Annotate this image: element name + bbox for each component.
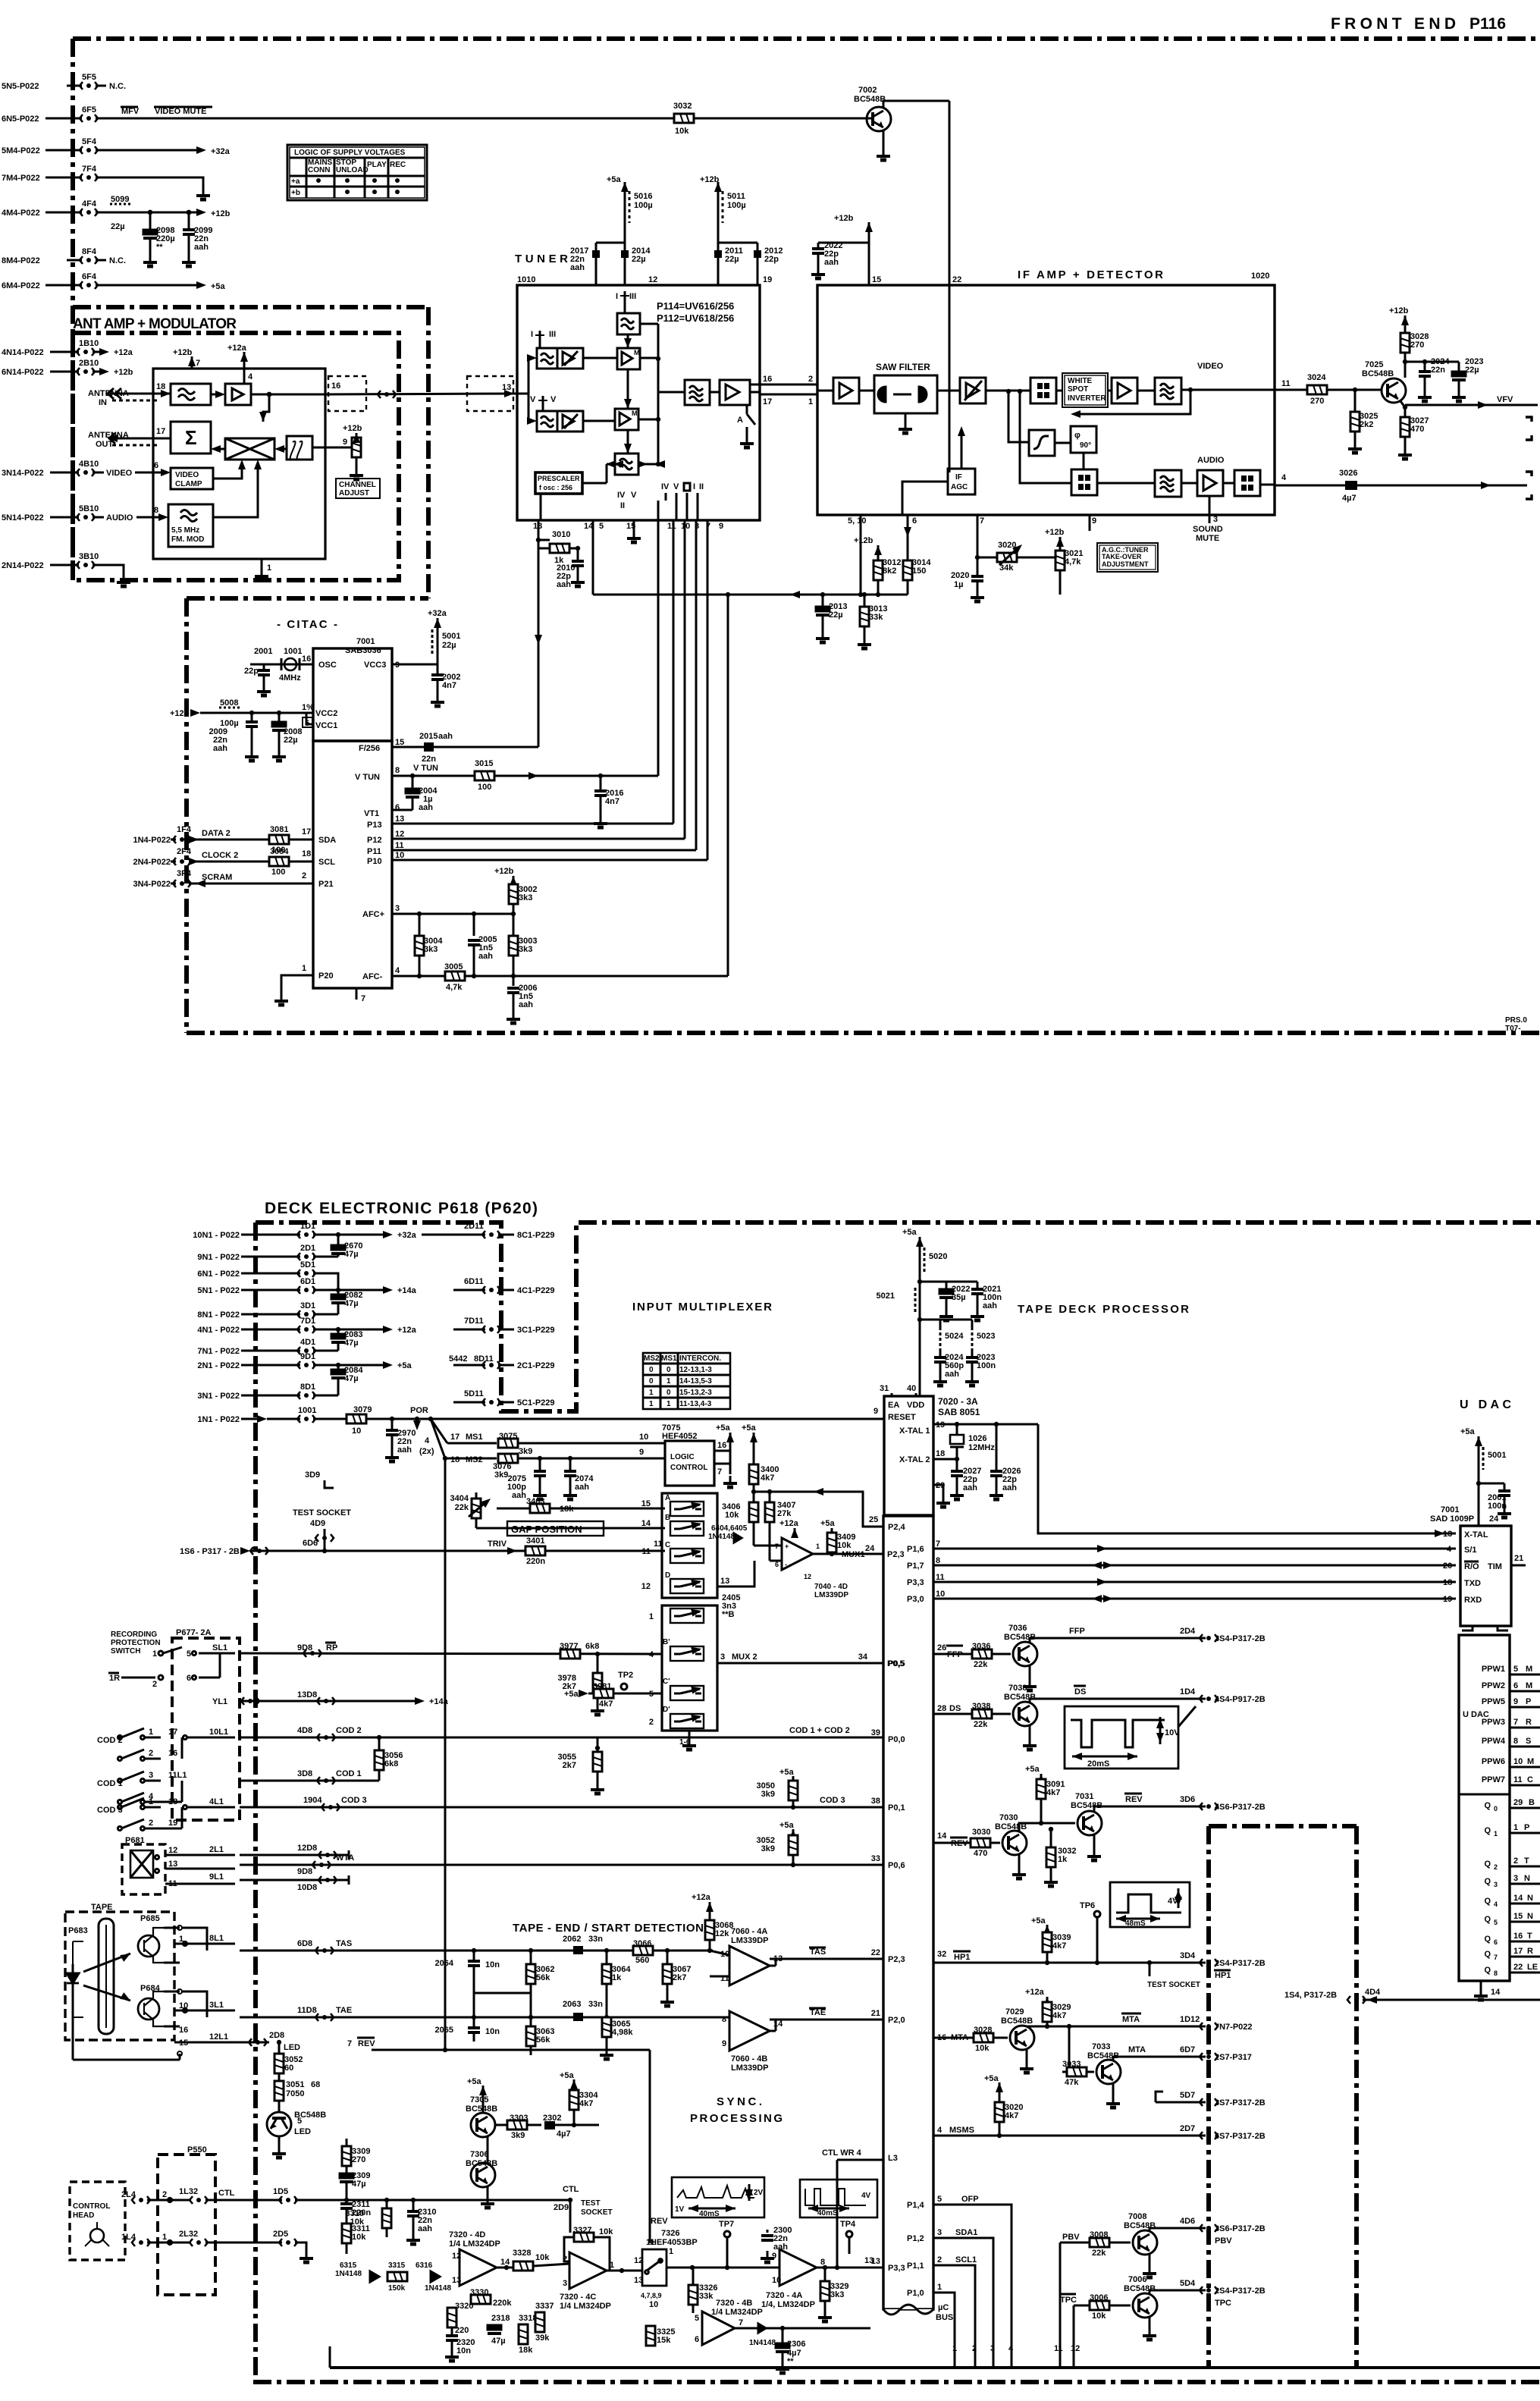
- svg-text:8D1: 8D1: [300, 1383, 315, 1392]
- svg-text:8: 8: [1513, 1737, 1518, 1746]
- svg-text:4L1: 4L1: [209, 1797, 224, 1806]
- band1 filter: [537, 348, 557, 369]
- svg-text:2S4-P317-2B: 2S4-P317-2B: [1215, 2286, 1266, 2296]
- svg-text:33k: 33k: [869, 613, 883, 622]
- svg-text:16: 16: [168, 1749, 177, 1758]
- svg-text:6k8: 6k8: [585, 1642, 599, 1651]
- svg-text:4: 4: [1494, 1900, 1498, 1908]
- svg-text:+12b: +12b: [834, 214, 854, 223]
- connector 4N14-P022 +12a: [2, 339, 133, 357]
- switch COD2: [97, 1728, 235, 1761]
- prescaler box: [535, 472, 582, 494]
- op-amp MUX1 7040-4D: [754, 1489, 905, 1599]
- svg-text:29: 29: [1513, 1798, 1523, 1807]
- svg-text:13: 13: [452, 2276, 461, 2285]
- svg-text:P685: P685: [140, 1914, 160, 1923]
- connector 5N1-P022 +14a 4C1-P229 cap 2082: [197, 1277, 554, 1295]
- video bandpass: [1155, 378, 1181, 404]
- svg-text:+12a: +12a: [1025, 1988, 1045, 1997]
- capacitor 2004 1u VTUN to VT1: [392, 776, 438, 812]
- capacitor 2022 22p at pin 15: [811, 214, 881, 285]
- svg-text:2N4-P022: 2N4-P022: [133, 858, 171, 867]
- svg-text:P3,3: P3,3: [907, 1578, 924, 1587]
- V TUN wire resistor 3015 100 caps 2004 2016: [392, 759, 658, 827]
- svg-text:T: T: [1527, 1932, 1532, 1941]
- ANTENNA OUT: [88, 427, 171, 449]
- svg-text:LOGIC OF SUPPLY VOLTAGES: LOGIC OF SUPPLY VOLTAGES: [294, 149, 406, 157]
- svg-text:1001: 1001: [284, 647, 302, 656]
- svg-text:2063: 2063: [563, 2000, 581, 2009]
- svg-text:1904: 1904: [303, 1796, 322, 1805]
- svg-text:P21: P21: [318, 880, 334, 889]
- svg-text:F/256: F/256: [359, 744, 380, 753]
- svg-text:24: 24: [1489, 1514, 1499, 1524]
- svg-text:MTA: MTA: [1122, 2015, 1140, 2024]
- svg-text:6D6: 6D6: [303, 1539, 318, 1548]
- svg-text:7008: 7008: [1128, 2212, 1146, 2221]
- svg-text:P2,3: P2,3: [888, 1955, 905, 1964]
- svg-text:+12a: +12a: [227, 344, 247, 353]
- connector 6N14-P022 +12b: [2, 359, 133, 377]
- connector 6N5-P022 pin 6F5 / MFV VIDEO MUTE wire: [2, 105, 674, 124]
- svg-text:7N1 - P022: 7N1 - P022: [197, 1347, 240, 1356]
- svg-text:+12b: +12b: [494, 867, 514, 876]
- svg-text:33k: 33k: [699, 2292, 714, 2301]
- left-side pin stubs: [871, 1659, 905, 2273]
- svg-text:10k: 10k: [675, 127, 689, 136]
- svg-text:3026: 3026: [1339, 469, 1357, 478]
- svg-text:-: -: [785, 1561, 787, 1568]
- front end frame top: [73, 36, 1540, 41]
- svg-text:4: 4: [248, 372, 253, 381]
- svg-text:220: 220: [455, 2326, 469, 2335]
- connector 2N4-P022 CLOCK2 resistor 3084: [133, 847, 313, 877]
- band2 amp: [557, 411, 583, 432]
- svg-text:+12b: +12b: [114, 368, 133, 377]
- svg-text:14: 14: [937, 1831, 947, 1841]
- svg-text:CLAMP: CLAMP: [175, 480, 202, 488]
- svg-text:3B10: 3B10: [79, 552, 99, 561]
- svg-text:12: 12: [641, 1582, 651, 1591]
- svg-text:1/4 LM324DP: 1/4 LM324DP: [560, 2302, 611, 2311]
- svg-text:5D11: 5D11: [464, 1389, 484, 1398]
- op-amp 7320-4B: [695, 2299, 870, 2347]
- connector 4N1-P022 +12a 3C1-P229 cap 2083: [197, 1317, 554, 1335]
- 3326 33k / 2306: [688, 2268, 717, 2313]
- connector 9N1-P022: [197, 1244, 338, 1262]
- TAE output to P2,0: [770, 2008, 883, 2020]
- svg-text:+a: +a: [291, 177, 300, 186]
- svg-text:aah: aah: [194, 243, 209, 252]
- resistor 3406 10k: [722, 1502, 758, 1522]
- svg-text:2: 2: [1513, 1856, 1518, 1866]
- svg-text:8: 8: [936, 1556, 940, 1565]
- svg-text:P3,0: P3,0: [907, 1595, 924, 1604]
- svg-text:90°: 90°: [1080, 441, 1091, 450]
- svg-text:aah: aah: [570, 263, 585, 272]
- svg-text:9: 9: [1092, 516, 1096, 526]
- svg-text:TAS: TAS: [810, 1947, 826, 1957]
- svg-text:aah: aah: [557, 580, 571, 589]
- svg-text:7001: 7001: [356, 637, 375, 646]
- svg-text:12: 12: [634, 2256, 643, 2265]
- svg-text:11: 11: [936, 1573, 945, 1582]
- P1,4 P1,2 P1,1 P1,0 staircase: [907, 2195, 1080, 2368]
- pin15 ground: [633, 520, 635, 531]
- svg-text:2: 2: [937, 2255, 942, 2264]
- svg-text:12: 12: [648, 275, 657, 284]
- svg-text:C: C: [1527, 1775, 1533, 1784]
- svg-text:1N4-P022: 1N4-P022: [133, 836, 171, 845]
- svg-text:13: 13: [502, 383, 511, 392]
- svg-text:4k7: 4k7: [599, 1700, 613, 1709]
- diodes 6315 3315 6316: [335, 2261, 451, 2293]
- svg-text:PPW1: PPW1: [1482, 1665, 1505, 1674]
- svg-text:MS1: MS1: [466, 1433, 483, 1442]
- svg-text:17: 17: [450, 1433, 459, 1442]
- svg-text:4MHz: 4MHz: [279, 673, 301, 683]
- svg-text:10k: 10k: [975, 2044, 990, 2053]
- ground pin 1: [261, 559, 263, 569]
- svg-text:HEAD: HEAD: [73, 2211, 94, 2220]
- lowpass shape box: [1029, 430, 1055, 456]
- svg-text:R: R: [1527, 1947, 1533, 1956]
- svg-text:TEST SOCKET: TEST SOCKET: [1147, 1981, 1200, 1989]
- svg-text:LM339DP: LM339DP: [731, 2064, 769, 2073]
- svg-text:P3,3: P3,3: [888, 2264, 905, 2273]
- osc box top: [617, 313, 640, 334]
- svg-text:17: 17: [168, 1728, 177, 1737]
- svg-text:+12b: +12b: [1389, 306, 1409, 315]
- svg-text:P1,4: P1,4: [907, 2201, 925, 2210]
- svg-text:7025: 7025: [1365, 360, 1383, 369]
- svg-text:REV: REV: [1125, 1795, 1143, 1804]
- svg-text:10n: 10n: [485, 2027, 500, 2036]
- svg-text:2064: 2064: [435, 1959, 454, 1968]
- svg-text:SYNC.: SYNC.: [717, 2095, 762, 2108]
- svg-text:1k: 1k: [1058, 1855, 1068, 1864]
- svg-text:aah: aah: [213, 744, 227, 753]
- svg-text:16: 16: [717, 1441, 726, 1450]
- svg-text:MS2: MS2: [644, 1354, 660, 1363]
- svg-text:1-6: 1-6: [679, 1738, 691, 1747]
- MS1 MS2 branch: [419, 1417, 665, 1480]
- 5D7 row: [1156, 2091, 1266, 2108]
- svg-text:+5a: +5a: [564, 1690, 579, 1699]
- op-amp feeds 3409 3407 3408: [779, 1519, 855, 1554]
- svg-text:+5a: +5a: [1025, 1765, 1040, 1774]
- connector 6M4-P022 pin 6F4 +5a: [2, 272, 226, 291]
- svg-text:2F4: 2F4: [177, 847, 192, 856]
- svg-text:1: 1: [302, 964, 306, 973]
- svg-text:1: 1: [937, 2283, 942, 2292]
- svg-text:7D1: 7D1: [300, 1317, 315, 1326]
- prescaler to pin 13 wire: [540, 494, 542, 520]
- svg-text:4: 4: [1447, 1545, 1452, 1554]
- MTA stage transistors 7029 7033: [933, 1988, 1253, 2108]
- svg-text:1N1 - P022: 1N1 - P022: [197, 1415, 240, 1424]
- svg-text:P12: P12: [367, 836, 382, 845]
- svg-text:0: 0: [649, 1366, 654, 1374]
- svg-text:12-13,1-3: 12-13,1-3: [679, 1366, 712, 1374]
- TAS TAE LED rows: [174, 1934, 531, 2048]
- svg-text:VIDEO: VIDEO: [1197, 362, 1224, 371]
- svg-text:FM. MOD: FM. MOD: [171, 535, 204, 544]
- svg-text:1026: 1026: [968, 1434, 986, 1443]
- svg-text:12MHz: 12MHz: [968, 1443, 995, 1452]
- svg-text:14: 14: [1491, 1988, 1501, 1997]
- svg-text:6D8: 6D8: [297, 1939, 312, 1948]
- svg-text:7320 - 4C: 7320 - 4C: [560, 2293, 596, 2302]
- svg-text:2020: 2020: [951, 571, 969, 580]
- svg-text:33n: 33n: [588, 1935, 603, 1944]
- svg-text:M: M: [632, 410, 638, 417]
- svg-text:MTA: MTA: [1128, 2045, 1146, 2054]
- svg-text:22µ: 22µ: [632, 255, 646, 264]
- mux block 2 rows A' B' C' D': [662, 1605, 717, 1731]
- svg-text:27k: 27k: [777, 1509, 792, 1518]
- svg-text:4D4: 4D4: [1365, 1988, 1381, 1997]
- svg-text:M: M: [1526, 1665, 1532, 1674]
- svg-text:TPC: TPC: [1215, 2299, 1231, 2308]
- P550 dashed box: [158, 2145, 215, 2295]
- HP1 row P0,7: [933, 1916, 1266, 1989]
- svg-text:+12b: +12b: [1045, 528, 1065, 537]
- svg-text:10k: 10k: [599, 2227, 613, 2236]
- svg-text:22: 22: [1513, 1963, 1523, 1972]
- svg-text:MUX 2: MUX 2: [732, 1652, 757, 1662]
- svg-text:10N1 - P022: 10N1 - P022: [193, 1231, 240, 1240]
- svg-text:IV: IV: [617, 491, 626, 500]
- svg-text:22µ: 22µ: [111, 222, 125, 231]
- svg-text:SL1: SL1: [212, 1643, 227, 1652]
- svg-text:270: 270: [1310, 397, 1324, 406]
- P13 P12 P11 P10 bus wires: [392, 824, 707, 860]
- svg-text:1k: 1k: [612, 1973, 622, 1982]
- bottom bus: [330, 2366, 1540, 2369]
- svg-text:220k: 220k: [493, 2299, 512, 2308]
- 3D9 stub / TEST SOCKET: [293, 1470, 351, 1517]
- svg-text:3320: 3320: [455, 2302, 473, 2311]
- transistor 7002 BC548B: [854, 86, 949, 160]
- svg-text:100µ: 100µ: [634, 201, 653, 210]
- svg-text:3: 3: [1213, 515, 1218, 524]
- svg-text:25: 25: [869, 1515, 878, 1524]
- AGC TUNER TAKE-OVER ADJUSTMENT box: [1097, 543, 1158, 572]
- svg-text:+b: +b: [291, 189, 300, 197]
- svg-text:N: N: [1527, 1894, 1533, 1903]
- svg-text:A: A: [737, 416, 743, 425]
- svg-text:VCC3: VCC3: [364, 661, 386, 670]
- svg-text:SCL1: SCL1: [955, 2255, 977, 2264]
- svg-text:2k2: 2k2: [1360, 420, 1373, 429]
- svg-text:60: 60: [284, 2064, 293, 2073]
- modulator mixer: [225, 438, 274, 460]
- svg-text:2k7: 2k7: [563, 1761, 576, 1770]
- X-TAL wire to UDAC: [1038, 1424, 1456, 1533]
- svg-text:3032: 3032: [673, 102, 692, 111]
- B row wire: [476, 1527, 665, 1530]
- deck frame top: [256, 1222, 1540, 1411]
- svg-text:U DAC: U DAC: [1460, 1398, 1511, 1411]
- svg-text:COD 3: COD 3: [341, 1796, 367, 1805]
- svg-text:+12a: +12a: [779, 1519, 799, 1528]
- svg-text:4,7k: 4,7k: [1065, 557, 1081, 567]
- svg-text:7: 7: [1513, 1718, 1518, 1727]
- svg-text:TPC: TPC: [1060, 2296, 1077, 2305]
- svg-text:6k8: 6k8: [384, 1759, 398, 1769]
- antenna symbol I III top: [616, 291, 636, 313]
- partition vert x565: [426, 307, 431, 598]
- svg-text:1B10: 1B10: [79, 339, 99, 348]
- svg-text:1: 1: [1494, 1830, 1498, 1838]
- svg-text:P2,3: P2,3: [887, 1550, 905, 1559]
- svg-text:M: M: [634, 349, 640, 356]
- svg-text:3: 3: [937, 2228, 942, 2237]
- svg-text:1: 1: [1513, 1823, 1518, 1832]
- svg-text:1: 1: [649, 1612, 654, 1621]
- svg-text:HEF4053BP: HEF4053BP: [651, 2238, 698, 2247]
- clamp to mixer wires: [213, 463, 242, 479]
- svg-text:8L1: 8L1: [209, 1934, 224, 1943]
- transistor 7025 video output: [1275, 360, 1406, 406]
- svg-text:7320 - 4B: 7320 - 4B: [716, 2299, 752, 2308]
- amp A3: [1112, 378, 1137, 403]
- svg-text:LOGIC: LOGIC: [670, 1453, 695, 1461]
- CTL WR wire to L3: [822, 2148, 883, 2268]
- svg-text:9: 9: [639, 1448, 644, 1457]
- svg-text:21: 21: [871, 2009, 880, 2018]
- CHANNEL ADJUST box: [336, 479, 380, 498]
- svg-text:22µ: 22µ: [1465, 366, 1479, 375]
- svg-text:P0,1: P0,1: [888, 1803, 905, 1813]
- svg-text:7060 - 4B: 7060 - 4B: [731, 2054, 767, 2064]
- REV wire: [347, 2038, 650, 2243]
- svg-text:3: 3: [395, 904, 400, 913]
- svg-text:LE: LE: [1527, 1963, 1538, 1972]
- IC 7020 main bar: [883, 1516, 933, 2309]
- svg-text:SAW FILTER: SAW FILTER: [876, 362, 930, 372]
- svg-text:3k9: 3k9: [511, 2131, 525, 2140]
- antenna symbol IV V row2: [528, 395, 557, 411]
- svg-text:PRESCALER: PRESCALER: [538, 475, 580, 482]
- capacitor 2099 22n: [182, 210, 212, 266]
- resistor 3013 33k: [858, 592, 887, 648]
- svg-text:3S6-P317-2B: 3S6-P317-2B: [1215, 2224, 1266, 2233]
- svg-text:CTL WR 4: CTL WR 4: [822, 2148, 862, 2158]
- svg-text:SDA: SDA: [318, 836, 336, 845]
- waveform box 4V 48mS TP6: [1080, 1882, 1190, 1965]
- svg-text:f osc : 256: f osc : 256: [539, 484, 572, 491]
- svg-text:aah: aah: [519, 1000, 533, 1009]
- svg-text:MS1: MS1: [661, 1354, 677, 1363]
- bottom small components row: [445, 2302, 475, 2361]
- svg-text:1N4148: 1N4148: [425, 2284, 451, 2293]
- svg-text:2065: 2065: [435, 2026, 453, 2035]
- COD2 COD1 rows resistor 3056 6k8: [240, 1726, 403, 1784]
- input network caps/resistors: [435, 1935, 729, 2059]
- connector 2N1-P022 +5a 2C1-P229 cap 2084: [197, 1352, 554, 1370]
- svg-text:MS2: MS2: [466, 1455, 483, 1464]
- svg-text:3033: 3033: [1062, 2060, 1081, 2069]
- svg-text:1S6 - P317 - 2B: 1S6 - P317 - 2B: [180, 1547, 240, 1556]
- svg-text:1: 1: [666, 1400, 671, 1408]
- svg-text:COD 3: COD 3: [820, 1796, 845, 1805]
- svg-text:PPW3: PPW3: [1482, 1718, 1505, 1727]
- svg-text:3079: 3079: [353, 1405, 372, 1414]
- svg-text:2001: 2001: [254, 647, 272, 656]
- IF out filter: [685, 380, 710, 405]
- svg-text:ADJUST: ADJUST: [339, 489, 369, 497]
- svg-text:10: 10: [639, 1433, 648, 1442]
- svg-text:Q: Q: [1484, 1877, 1491, 1886]
- TP7: [690, 2220, 779, 2270]
- svg-text:10n: 10n: [485, 1960, 500, 1969]
- connector 5N5-P022 pin 5F5: [2, 73, 126, 91]
- svg-text:7: 7: [739, 2318, 743, 2327]
- svg-text:100n: 100n: [1488, 1502, 1507, 1511]
- svg-text:1: 1: [649, 1389, 654, 1397]
- resistor 3014 150 pin6: [903, 515, 931, 595]
- supply caps 5020 5021 2022 2021 5024 5023 2024 2023: [877, 1228, 1002, 1396]
- FFP stage transistor 7036: [933, 1624, 1266, 1690]
- svg-text:Q: Q: [1484, 1826, 1491, 1835]
- svg-text:5: 5: [599, 522, 604, 531]
- svg-text:4,7,8,9: 4,7,8,9: [641, 2292, 662, 2299]
- svg-text:9: 9: [722, 2039, 726, 2048]
- svg-text:+12a: +12a: [692, 1893, 711, 1902]
- svg-text:6N5-P022: 6N5-P022: [2, 115, 39, 124]
- capacitor 2098 220µ: [143, 210, 175, 266]
- svg-text:2D7: 2D7: [1180, 2124, 1195, 2133]
- svg-text:MSMS: MSMS: [949, 2126, 974, 2135]
- svg-text:3k9: 3k9: [494, 1470, 508, 1480]
- svg-text:Q: Q: [1484, 1935, 1491, 1944]
- svg-text:3081: 3081: [270, 825, 288, 834]
- svg-text:3: 3: [149, 1771, 153, 1780]
- svg-text:M: M: [1526, 1681, 1532, 1690]
- svg-text:WHITE: WHITE: [1068, 377, 1093, 385]
- svg-text:8: 8: [154, 506, 158, 515]
- capacitor 2970 22n: [385, 1419, 416, 1461]
- svg-text:P1,1: P1,1: [907, 2261, 924, 2271]
- svg-text:9: 9: [874, 1407, 878, 1416]
- deck inner dash box (connector column): [1209, 1826, 1357, 2368]
- svg-text:OFP: OFP: [961, 2195, 979, 2204]
- svg-text:5C1-P229: 5C1-P229: [517, 1398, 555, 1408]
- svg-text:+12a: +12a: [397, 1326, 417, 1335]
- svg-text:II: II: [620, 501, 625, 510]
- svg-text:+5a: +5a: [984, 2074, 999, 2083]
- svg-text:1N4148: 1N4148: [708, 1533, 735, 1541]
- svg-text:3D8: 3D8: [297, 1769, 312, 1778]
- svg-text:100: 100: [271, 868, 285, 877]
- svg-text:V: V: [550, 395, 557, 404]
- 3330 220k feedback: [470, 2288, 512, 2308]
- svg-text:4D8: 4D8: [297, 1726, 312, 1735]
- svg-text:N.C.: N.C.: [109, 256, 126, 265]
- svg-text:C: C: [665, 1541, 670, 1549]
- svg-text:+12b: +12b: [211, 209, 231, 218]
- front end frame left: [71, 39, 75, 580]
- svg-text:IF: IF: [955, 473, 962, 482]
- svg-text:22: 22: [952, 275, 961, 284]
- svg-text:PPW4: PPW4: [1482, 1737, 1506, 1746]
- svg-text:10: 10: [1513, 1757, 1523, 1766]
- svg-text:YL1: YL1: [212, 1697, 227, 1706]
- partition horiz y405: [73, 305, 428, 309]
- svg-text:3k9: 3k9: [761, 1844, 775, 1853]
